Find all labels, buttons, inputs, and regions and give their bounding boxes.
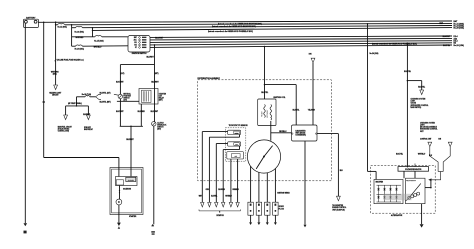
svg-text:WHT: WHT xyxy=(439,23,443,25)
svg-text:(IN-LINE FUSE, FUSE HOLDER box: (IN-LINE FUSE, FUSE HOLDER box) xyxy=(57,59,84,61)
svg-text:DISTRIBUTOR ASSEMBLY: DISTRIBUTOR ASSEMBLY xyxy=(198,77,221,80)
svg-text:BLU: BLU xyxy=(429,155,432,157)
svg-text:INTERLOCK: INTERLOCK xyxy=(157,124,167,126)
svg-text:(M/T): (M/T) xyxy=(159,100,163,102)
svg-text:FIELD WINDING: FIELD WINDING xyxy=(406,180,416,182)
svg-text:BLK/YEL: BLK/YEL xyxy=(443,45,450,47)
svg-text:No.41 (80A): No.41 (80A) xyxy=(58,26,68,29)
svg-text:BLU: BLU xyxy=(340,170,343,172)
svg-text:BLK/YEL (M/T): BLK/YEL (M/T) xyxy=(100,102,112,104)
svg-text:WHT: WHT xyxy=(199,195,202,197)
svg-text:BLK/YEL: BLK/YEL xyxy=(261,92,268,94)
svg-text:ORN: ORN xyxy=(206,189,209,191)
svg-text:IGNITION WIRES: IGNITION WIRES xyxy=(277,193,289,195)
svg-text:ST: ST xyxy=(135,47,137,49)
svg-text:CUT: CUT xyxy=(159,96,162,98)
svg-text:BLU/WHT: BLU/WHT xyxy=(155,38,164,40)
svg-text:ECM/PCM: ECM/PCM xyxy=(217,215,225,217)
svg-text:TDC/CKP/CYP SENSOR: TDC/CKP/CYP SENSOR xyxy=(229,125,249,127)
svg-text:SWITCH: SWITCH xyxy=(157,127,164,129)
svg-text:BLU/GRN: BLU/GRN xyxy=(218,189,224,191)
svg-text:WHT/GRN: WHT/GRN xyxy=(51,72,59,74)
svg-text:LIGHT: LIGHT xyxy=(411,101,416,103)
svg-text:SWITCH: SWITCH xyxy=(123,98,130,100)
svg-text:BLK/WHT: BLK/WHT xyxy=(116,82,123,84)
svg-text:No.29 (15A): No.29 (15A) xyxy=(454,44,465,47)
svg-text:PLUNGER: PLUNGER xyxy=(128,179,134,181)
svg-text:CLUTCH: CLUTCH xyxy=(157,122,164,124)
svg-text:(IN ELECTRONIC: (IN ELECTRONIC xyxy=(58,129,70,131)
svg-text:IGNITION COIL: IGNITION COIL xyxy=(273,97,285,99)
svg-text:POSITION: POSITION xyxy=(123,95,131,97)
svg-text:BLK/WHT: BLK/WHT xyxy=(151,82,158,84)
svg-text:BLK/YEL: BLK/YEL xyxy=(293,109,300,111)
svg-text:WHT/BLU: WHT/BLU xyxy=(94,46,103,48)
svg-text:BLU/WHT: BLU/WHT xyxy=(83,114,90,116)
svg-text:UNIT) (NOISE: UNIT) (NOISE xyxy=(295,133,305,135)
svg-text:CONTROL UNIT: CONTROL UNIT xyxy=(420,138,431,140)
svg-text:No.15 (40A): No.15 (40A) xyxy=(94,39,104,42)
svg-text:CKP: CKP xyxy=(234,156,237,158)
svg-text:BLK/YEL: BLK/YEL xyxy=(396,154,403,156)
svg-text:(M/T): (M/T) xyxy=(157,129,161,131)
svg-text:BLK/RED: BLK/RED xyxy=(138,111,146,113)
svg-text:WHT/BLU: WHT/BLU xyxy=(225,195,231,197)
svg-text:BLK/WHT: BLK/WHT xyxy=(126,139,133,141)
svg-text:CONTROL UNIT): CONTROL UNIT) xyxy=(58,131,70,133)
svg-text:PLUGS: PLUGS xyxy=(279,208,284,210)
svg-text:UNIT: UNIT xyxy=(420,131,424,133)
svg-text:ORN/BLU: ORN/BLU xyxy=(232,189,238,191)
svg-text:No.30 (40A): No.30 (40A) xyxy=(75,47,85,50)
svg-text:BLK/WHT: BLK/WHT xyxy=(146,57,153,59)
svg-text:IGN: IGN xyxy=(438,138,441,140)
svg-text:YEL/GRN: YEL/GRN xyxy=(308,109,316,111)
svg-text:BLU/YEL: BLU/YEL xyxy=(211,195,217,197)
svg-text:CIRCUIT: CIRCUIT xyxy=(52,94,58,96)
svg-text:(M/T): (M/T) xyxy=(155,73,159,75)
svg-text:BLK/WHT: BLK/WHT xyxy=(116,111,123,113)
svg-text:WHT/BLU: WHT/BLU xyxy=(418,154,426,156)
svg-text:BLU/WHT: BLU/WHT xyxy=(443,36,450,38)
svg-text:ENGINE CONTROL: ENGINE CONTROL xyxy=(332,207,346,209)
svg-text:No.33 (50A): No.33 (50A) xyxy=(75,31,85,34)
svg-text:No.39 (50A): No.39 (50A) xyxy=(454,27,465,30)
svg-text:TDC: TDC xyxy=(235,144,238,146)
svg-text:IG1: IG1 xyxy=(134,42,137,44)
svg-text:ALTERNATOR: ALTERNATOR xyxy=(391,214,403,217)
svg-text:CYP: CYP xyxy=(235,132,238,134)
svg-text:ICM (IGNITER: ICM (IGNITER xyxy=(295,130,306,132)
svg-text:WHT/RED: WHT/RED xyxy=(76,37,85,39)
svg-text:CONDENSER): CONDENSER) xyxy=(295,135,306,137)
svg-text:BLK/YEL: BLK/YEL xyxy=(418,86,425,88)
svg-text:LIGHT: LIGHT xyxy=(420,125,425,127)
svg-text:SOLENOID: SOLENOID xyxy=(123,189,132,191)
svg-text:BATTERY: BATTERY xyxy=(26,16,36,19)
svg-text:RECTIFIER: RECTIFIER xyxy=(376,181,383,183)
svg-text:WHT/BLU: WHT/BLU xyxy=(279,131,287,133)
svg-text:IG2: IG2 xyxy=(134,45,137,47)
svg-text:IGNITION SWITCH: IGNITION SWITCH xyxy=(132,53,147,55)
svg-text:BLK/YEL: BLK/YEL xyxy=(404,71,411,73)
svg-text:UNIT (ECM/PCM): UNIT (ECM/PCM) xyxy=(332,209,345,211)
svg-text:IGN: IGN xyxy=(309,54,312,56)
